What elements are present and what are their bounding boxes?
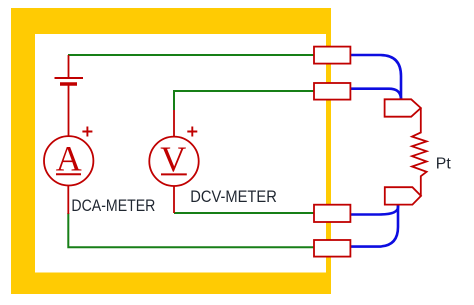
wire net3 green: voltmeter - to terminal block TB3 — [174, 212, 314, 214]
voltmeter U2 circle — [149, 137, 198, 186]
wire net4 green: ammeter - to terminal block TB4 — [68, 213, 314, 247]
battery BT1 positive plate — [55, 77, 84, 79]
blue wire TB4 to Pt bottom — [351, 204, 399, 246]
terminal block TB2 — [314, 83, 350, 100]
resistor Pt leads and zigzag — [412, 108, 427, 196]
blue wire TB3 to Pt bottom — [351, 204, 399, 214]
battery BT1 negative plate — [60, 82, 77, 85]
voltmeter U2 underline — [161, 173, 187, 175]
probe terminal P2 (bottom) — [385, 187, 421, 204]
battery BT1 top pin — [68, 55, 70, 78]
voltmeter U2 top pin — [173, 110, 175, 137]
blue wire TB2 to Pt top — [351, 89, 402, 100]
yellow frame (enclosure outline) — [11, 8, 331, 294]
svg-text:DCV-METER: DCV-METER — [190, 188, 277, 206]
terminal block TB1 — [314, 47, 350, 64]
svg-text:V: V — [160, 139, 186, 179]
svg-text:Pt: Pt — [436, 156, 452, 173]
terminal block TB4 — [314, 240, 350, 257]
blue wire TB1 to Pt top — [351, 55, 402, 100]
terminal block TB3 — [314, 205, 350, 222]
ammeter U1 underline — [56, 173, 81, 175]
voltmeter U2 bottom pin — [173, 186, 175, 213]
wire net1 green: battery + to terminal block TB1 — [68, 54, 314, 56]
voltmeter U2 plus mark — [187, 127, 197, 137]
svg-text:DCA-METER: DCA-METER — [71, 197, 155, 215]
wire battery - to ammeter + — [68, 86, 70, 137]
ammeter U1 circle — [44, 136, 93, 185]
wire net2 green: voltmeter + to terminal block TB2 — [174, 91, 314, 110]
ammeter U1 bottom pin — [67, 186, 69, 215]
probe terminal P1 (top) — [385, 99, 421, 116]
ammeter U1 plus mark — [82, 127, 92, 137]
svg-text:A: A — [56, 138, 82, 178]
